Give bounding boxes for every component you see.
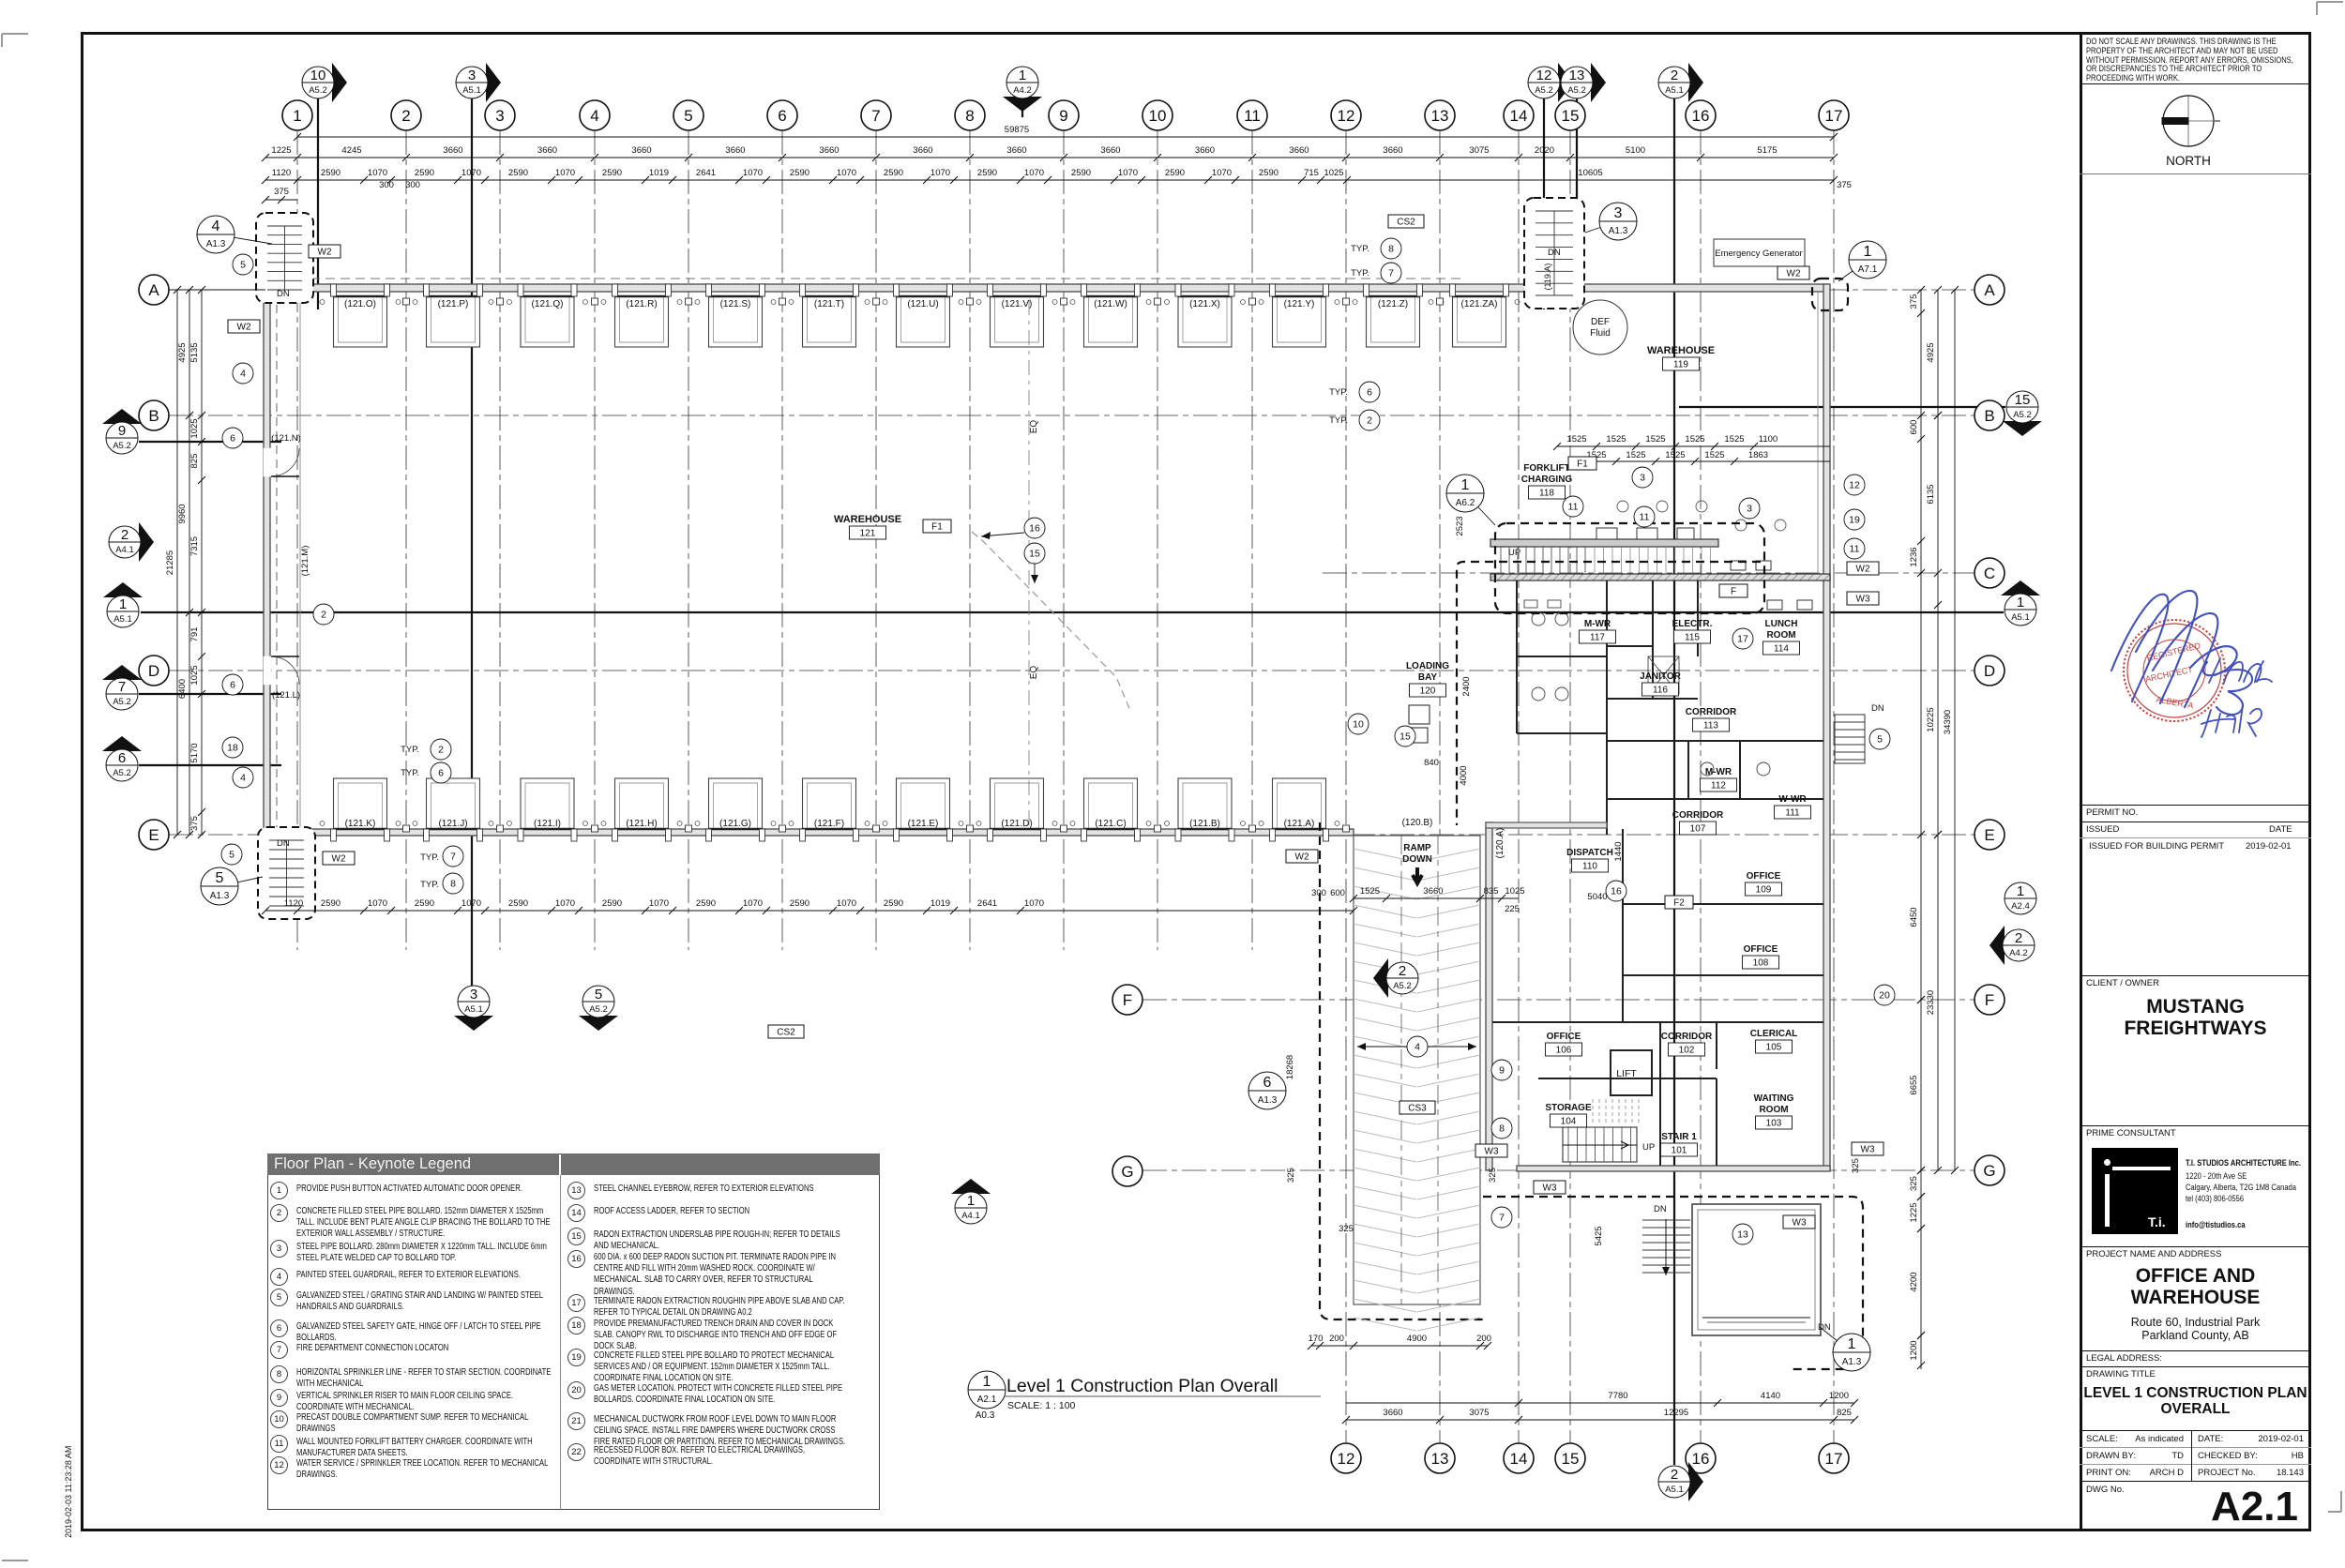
section line 7/A5.2 horizontal (139, 693, 281, 695)
grid bubble B (139, 400, 169, 430)
grid bubble 6 (767, 100, 797, 130)
grid bubble 3 (485, 100, 515, 130)
detail marker 5/A1.3 (201, 867, 263, 905)
svg-text:NORTH: NORTH (2166, 154, 2211, 168)
grid bubble E (1974, 820, 2005, 850)
keynote 9 (1491, 1060, 1512, 1080)
section line 12/A5.2 vertical (1543, 98, 1545, 309)
detail marker 6/A1.3 (1248, 1072, 1286, 1109)
grid bubble 11 (1237, 100, 1267, 130)
keynote 6 (431, 762, 451, 783)
section marker 2/A4.1 (109, 522, 154, 562)
grid bubble 8 (955, 100, 985, 130)
grid bubble F (1974, 985, 2005, 1015)
dock door (121.X) (1165, 284, 1246, 347)
grid bubble 12 (1331, 1443, 1361, 1473)
client / owner (2080, 975, 2311, 976)
dock door (121.T) (789, 284, 870, 347)
label F1 (1568, 457, 1596, 470)
interior apron line along left wall (299, 292, 301, 829)
dock door (121.Q) (507, 284, 588, 347)
grid bubble E (139, 820, 169, 850)
room STORAGE 104 (1545, 1103, 1592, 1127)
room OFFICE 108 (1743, 944, 1779, 969)
room WAREHOUSE 119 (1647, 345, 1715, 370)
label CS2 (768, 1025, 804, 1038)
section marker 3/A5.1 (456, 63, 501, 102)
room M-WR 112 (1701, 767, 1737, 792)
dock door (121.F) (789, 778, 870, 841)
keynote 7 (1491, 1207, 1512, 1228)
keynote 19 (1844, 509, 1865, 530)
section marker 2/A4.2 (1989, 926, 2035, 965)
DEF fluid circle (1573, 300, 1627, 354)
grid bubble 17 (1819, 100, 1849, 130)
grid bubble 17 (1819, 1443, 1849, 1473)
room OFFICE 106 (1546, 1032, 1582, 1056)
keynote 11 (1563, 496, 1583, 517)
dock door (121.V) (976, 284, 1057, 347)
grid bubble G (1112, 1156, 1142, 1186)
bottom dock wall row E (265, 829, 1354, 836)
title block left edge (2080, 32, 2082, 1531)
section marker 3/A5.1 (454, 986, 493, 1031)
keynote 8 (1381, 238, 1401, 259)
keynote 3 (1632, 467, 1653, 488)
stairwell top grid14-15 (119.A) (1524, 198, 1584, 309)
dashed canopy outlines (1495, 523, 1764, 613)
dock door (121.E) (883, 778, 963, 841)
label CS2 (1388, 215, 1424, 228)
room W-WR 111 (1775, 794, 1811, 819)
room CORRIDOR 102 (1661, 1032, 1713, 1056)
keynote 2 (1359, 410, 1380, 430)
section line 3/A5.1 vertical (471, 98, 473, 989)
label W2 (1778, 266, 1809, 279)
grid bubble A (139, 275, 169, 305)
section line 1/A5.1 horizontal (141, 611, 2004, 613)
label F2 (1665, 896, 1693, 909)
section marker 1/A5.1 (103, 582, 143, 627)
room WAITING\nROOM 103 (1754, 1093, 1794, 1129)
dock door (121.H) (601, 778, 682, 841)
label W2 (309, 245, 340, 258)
grid bubble 1 (282, 100, 312, 130)
room M-WR 117 (1580, 619, 1616, 643)
grid bubble 10 (1142, 100, 1172, 130)
office interior walls (1492, 580, 1823, 1166)
dock door (121.A) (1259, 778, 1339, 841)
right dimension lines (1920, 290, 1922, 1369)
office NW boundary wall at dock level (1486, 822, 1607, 828)
dock door (121.C) (1070, 778, 1151, 841)
section marker 15/A5.2 (2003, 391, 2042, 436)
forklift dims 1525 (1557, 445, 1830, 447)
dock door (121.I) (507, 778, 588, 841)
section line 6/A5.2 horizontal (139, 764, 281, 766)
top dimension lines (297, 136, 1834, 138)
keynote 6 (1359, 382, 1380, 402)
dock door (121.R) (601, 284, 682, 347)
room STAIR 1 101 (1661, 1132, 1698, 1156)
grid bubble 7 (861, 100, 891, 130)
north arrow symbol (2162, 95, 2220, 147)
label W3 (1783, 1215, 1815, 1229)
keynote 10 (1348, 714, 1369, 734)
grid bubble 9 (1049, 100, 1079, 130)
exterior stair south (1642, 1220, 1690, 1273)
keynote 8 (1491, 1118, 1512, 1138)
radon leader (981, 533, 1024, 536)
room OFFICE 109 (1746, 871, 1782, 896)
section line 10/A5.2 stub (317, 98, 319, 309)
grid bubble F (1112, 985, 1142, 1015)
disclaimer (2086, 38, 2293, 83)
dock door (121.S) (695, 284, 776, 347)
radon pit circles (suction) (1617, 501, 1786, 531)
label W3 (1852, 1142, 1884, 1155)
keynote 6 (222, 428, 243, 448)
north arrow (2080, 84, 2311, 173)
grid bubble 2 (391, 100, 421, 130)
grid bubble 14 (1504, 1443, 1534, 1473)
keynote 5 (221, 844, 242, 865)
room CORRIDOR 113 (1686, 707, 1737, 731)
room LOADING\nBAY 120 (1406, 661, 1449, 697)
top wall row A (265, 284, 1825, 292)
room JANITOR 116 (1640, 671, 1681, 696)
dock door (121.D) (976, 778, 1057, 841)
door 121.L swing (264, 656, 271, 685)
detail marker 1/A1.3 (1820, 1327, 1870, 1371)
grid bubble 5 (673, 100, 703, 130)
section marker 9/A5.2 (102, 409, 142, 454)
keynote 18 (222, 737, 243, 758)
T.i. logo (2092, 1148, 2178, 1234)
keynote 11 (1634, 506, 1655, 527)
architect stamp (2098, 581, 2286, 769)
interior dashed line along left wall (276, 291, 278, 829)
section marker 1/A2.4 (2005, 882, 2036, 914)
section marker 13/A5.2 (1561, 63, 1606, 102)
project name (2080, 1246, 2311, 1247)
dock door (121.J) (413, 778, 493, 841)
office south wall (1517, 1166, 1830, 1171)
dwg no (2086, 1485, 2125, 1495)
keynote 12 (1844, 475, 1865, 495)
section marker 2/A5.1 (1658, 1462, 1703, 1501)
keynote 13 (1732, 1224, 1753, 1244)
section marker 1/A5.1 (2001, 580, 2040, 626)
dock door (121.W) (1070, 284, 1151, 347)
keynote 2 (431, 739, 451, 760)
stairwell top-left 4/A1.3 (256, 213, 313, 303)
keynote 15 (1395, 726, 1415, 746)
keynote 4 (233, 363, 253, 384)
grid bubble 15 (1555, 100, 1585, 130)
grid bubble 13 (1425, 1443, 1455, 1473)
section marker 1/A4.2 (1003, 67, 1042, 112)
left dimension lines (176, 290, 178, 835)
grid bubble G (1974, 1155, 2005, 1185)
label W2 (228, 320, 260, 333)
small battery charger squares (1596, 528, 1812, 610)
grid bubble 12 (1331, 100, 1361, 130)
room DISPATCH 110 (1566, 848, 1613, 872)
emergency generator (1714, 239, 1805, 266)
scale rows (2080, 1430, 2311, 1431)
keynote 5 (1869, 729, 1890, 749)
keynote 11 (1844, 538, 1865, 559)
section marker 12/A5.2 (1528, 63, 1573, 102)
section line 9/A5.2 horizontal (139, 441, 281, 443)
section marker 2/A5.1 (1658, 63, 1703, 102)
grid bubble C (1974, 558, 2005, 588)
washroom fixtures (1524, 600, 1770, 776)
keynote 2 (313, 604, 334, 625)
keynote 4 (1407, 1036, 1428, 1057)
far bottom dimension lines (1346, 1402, 1854, 1404)
keynote 5 (233, 254, 253, 275)
storage stair treads (1593, 1099, 1639, 1125)
dock door (121.Z) (1353, 284, 1433, 347)
keynote 16 (1024, 518, 1045, 538)
grid lines (169, 130, 1974, 1443)
loading bay sump keynote 10 (1409, 705, 1430, 743)
bottom dock dimension line (265, 910, 1354, 912)
detail marker 1/A7.1 (1838, 241, 1886, 281)
keynote 15 (1024, 543, 1045, 564)
KEYNOTE LEGEND (267, 1153, 880, 1510)
forklift mezzanine platform (1490, 539, 1718, 547)
stamp blue signature (2111, 591, 2252, 715)
grid bubble D (139, 656, 169, 686)
grid bubble 13 (1425, 100, 1455, 130)
office west wall (1486, 822, 1492, 1170)
dock door (121.ZA) (1439, 284, 1520, 347)
ramp bottom dims (0, 1345, 1483, 1347)
dock door (121.B) (1165, 778, 1246, 841)
stairwell bottom-left 5/A1.3 (258, 827, 315, 919)
exterior walkway south (1692, 1204, 1821, 1335)
interior apron line along east wall (1817, 292, 1819, 574)
stair 1 treads (1563, 1127, 1637, 1162)
label W2 (323, 852, 355, 865)
label W2 (1847, 562, 1879, 575)
section marker 10/A5.2 (302, 63, 347, 102)
room CORRIDOR 107 (1672, 810, 1724, 835)
canopy dashed above top wall (265, 278, 1463, 279)
ramp hatched area (1354, 836, 1480, 1331)
section marker 6/A5.2 (102, 736, 142, 781)
detail marker 4/A1.3 (197, 216, 272, 253)
keynote 6 (222, 674, 243, 695)
EQ centerline (1028, 300, 1030, 825)
grid bubble D (1974, 656, 2005, 686)
label F1 (923, 520, 951, 533)
grid bubble A (1974, 275, 2005, 305)
section marker 5/A5.2 (579, 986, 618, 1031)
label CS3 (1399, 1101, 1435, 1114)
section line 2/A5.1 vertical (1673, 98, 1675, 1465)
grid bubble 4 (580, 100, 610, 130)
label W3 (1534, 1181, 1566, 1194)
dock door (121.O) (320, 284, 401, 347)
room WAREHOUSE 121 (834, 514, 901, 539)
keynote 4 (233, 767, 253, 788)
grid bubble 16 (1686, 1443, 1716, 1473)
detail marker 3/A1.3 (1585, 203, 1637, 240)
section marker 2/A5.2 (1373, 958, 1418, 998)
section line 15/A5.2 horizontal (1679, 406, 2005, 408)
right wall (1823, 284, 1830, 1170)
door 121.N swing (264, 448, 271, 476)
keynote 7 (443, 846, 463, 867)
keynote 4 arrows across ramp (1357, 1046, 1476, 1048)
keynote 7 (1381, 263, 1401, 283)
keynote 8 (443, 873, 463, 894)
drawing title (2080, 1366, 2311, 1367)
dock door (121.K) (320, 778, 401, 841)
grid bubble 16 (1686, 100, 1716, 130)
dock door (121.G) (695, 778, 776, 841)
room ELECTR. 115 (1672, 619, 1713, 643)
grid bubble 14 (1504, 100, 1534, 130)
detail marker 1/A2.1 (968, 1371, 1006, 1409)
dock door (121.Y) (1259, 284, 1339, 347)
section line 13/A5.2 vertical (1576, 98, 1578, 281)
label F (1719, 584, 1747, 597)
exterior stair east (1835, 715, 1865, 763)
label W2 (1286, 850, 1318, 863)
legal address (2080, 1350, 2311, 1351)
keynote 3 (1739, 498, 1760, 519)
stamp red seal (2124, 620, 2225, 721)
dock door (121.P) (413, 284, 493, 347)
section marker 7/A5.2 (102, 665, 142, 710)
prime consultant (2080, 1125, 2311, 1126)
print timestamp (rotated) (64, 1446, 73, 1538)
section marker 1/A4.1 (951, 1179, 991, 1224)
dock door (121.U) (883, 284, 963, 347)
room CLERICAL 105 (1750, 1029, 1798, 1053)
section line 1/A4.2 vertical stub (1021, 98, 1023, 117)
keynote 16 (1606, 881, 1626, 901)
keynote 17 (1732, 628, 1753, 649)
grid bubble B (1974, 400, 2005, 430)
grid bubble 15 (1555, 1443, 1585, 1473)
room FORKLIFT\nCHARGING 118 (1521, 463, 1573, 499)
keynote 20 (1874, 985, 1895, 1005)
detail marker 1/A6.2 (1446, 475, 1495, 525)
label W3 (1475, 1144, 1507, 1157)
left wall (264, 284, 270, 835)
room LUNCH\nROOM 114 (1763, 619, 1800, 655)
label W3 (1847, 592, 1879, 605)
permit/issued (2080, 805, 2311, 806)
